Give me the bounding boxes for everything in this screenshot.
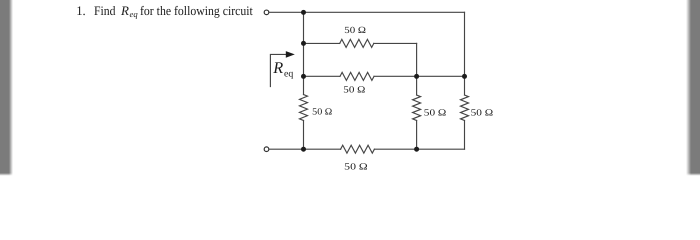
wire bottom right <box>374 148 464 150</box>
junction dot row2 middle <box>414 74 419 79</box>
resistor R4 wire upper <box>416 76 418 95</box>
junction dot row2 right <box>462 74 467 79</box>
wire bottom left <box>269 148 340 150</box>
junction dot row1 left <box>301 41 306 46</box>
wire row2 left <box>304 75 341 77</box>
wire row1 left <box>304 42 340 44</box>
svg-text:50 Ω: 50 Ω <box>312 108 332 118</box>
junction dot bottom middle <box>414 147 419 152</box>
junction dot top node <box>301 10 306 15</box>
resistor R3 50ohm vertical left <box>300 95 308 121</box>
resistor R5 wire lower <box>464 121 466 150</box>
svg-text:R: R <box>272 58 283 77</box>
svg-text:50 Ω: 50 Ω <box>343 86 365 96</box>
svg-text:50 Ω: 50 Ω <box>344 26 366 36</box>
svg-text:R: R <box>120 3 129 18</box>
wire left vertical upper <box>303 12 305 94</box>
wire row2 right <box>417 75 465 77</box>
Req bracket arrow <box>270 54 287 86</box>
Req arrowhead <box>286 51 295 58</box>
svg-text:50 Ω: 50 Ω <box>471 109 494 119</box>
junction dot row2 left <box>301 74 306 79</box>
resistor R2 50ohm horizontal row2 <box>340 72 374 80</box>
svg-text:for the following circuit: for the following circuit <box>140 3 253 18</box>
wire row1 corner down <box>416 43 418 76</box>
wire row1 right <box>374 42 417 44</box>
resistor R5 50ohm vertical right <box>461 95 469 121</box>
resistor R6 50ohm horizontal bottom <box>341 145 375 153</box>
wire row2 middle <box>374 75 417 77</box>
left page-edge gray bar <box>0 0 13 176</box>
svg-text:eq: eq <box>130 9 139 19</box>
resistor R4 50ohm vertical middle <box>413 95 421 121</box>
resistor R4 wire lower <box>416 121 418 150</box>
wire left vertical lower <box>303 121 305 150</box>
terminal top-left (open circle) <box>264 10 269 15</box>
resistor R5 wire upper <box>464 76 466 95</box>
svg-text:50 Ω: 50 Ω <box>424 109 447 119</box>
label Req at bracket <box>272 58 293 80</box>
svg-text:Find: Find <box>94 3 116 18</box>
wire top horizontal <box>269 11 464 13</box>
wire top-right vertical <box>464 12 466 76</box>
heading: problem statement text <box>76 3 253 19</box>
resistor R1 50ohm horizontal row1 <box>340 39 374 47</box>
terminal bottom-left (open circle) <box>264 147 269 152</box>
svg-text:eq: eq <box>284 69 293 80</box>
svg-text:50 Ω: 50 Ω <box>344 163 368 173</box>
right page-edge gray bar <box>686 0 700 176</box>
junction dot bottom left <box>301 147 306 152</box>
svg-text:1.: 1. <box>76 3 86 18</box>
